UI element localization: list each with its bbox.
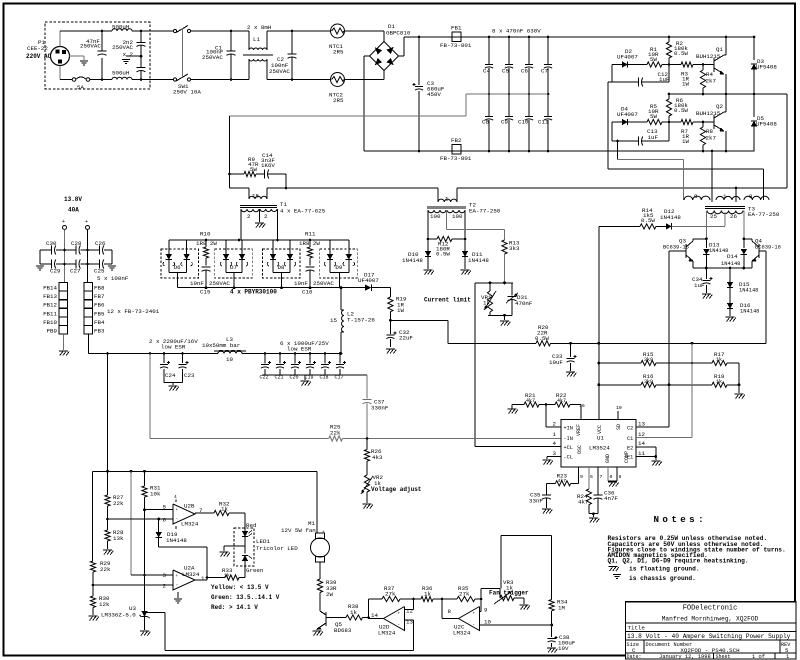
svg-text:1W: 1W	[397, 307, 404, 314]
svg-text:1N4148: 1N4148	[166, 537, 187, 544]
svg-text:C29: C29	[50, 268, 61, 275]
svg-text:5W: 5W	[650, 56, 657, 63]
svg-text:FB11: FB11	[43, 310, 57, 317]
svg-text:2k7: 2k7	[706, 78, 717, 85]
svg-text:3k9: 3k9	[644, 357, 653, 363]
svg-text:Manfred Mornhinweg, XQ2FOD: Manfred Mornhinweg, XQ2FOD	[662, 616, 759, 623]
svg-text:0.5W: 0.5W	[436, 251, 450, 258]
svg-text:5A: 5A	[77, 84, 84, 91]
svg-text:GBPC810: GBPC810	[386, 30, 411, 37]
svg-text:1uF: 1uF	[648, 134, 659, 141]
svg-text:+: +	[322, 530, 325, 535]
svg-text:+IN: +IN	[564, 426, 573, 432]
svg-text:25: 25	[710, 213, 717, 220]
svg-text:Fan trigger: Fan trigger	[489, 590, 529, 597]
svg-text:C17: C17	[335, 375, 344, 381]
svg-text:C28: C28	[71, 240, 82, 247]
svg-text:10nF: 10nF	[190, 280, 204, 287]
svg-text:is chassis ground.: is chassis ground.	[629, 575, 696, 582]
svg-text:9: 9	[484, 607, 488, 614]
svg-text:6: 6	[590, 474, 593, 480]
svg-text:15: 15	[252, 193, 259, 200]
svg-text:C5: C5	[502, 68, 509, 75]
svg-text:EA-77-250: EA-77-250	[469, 208, 501, 215]
svg-text:10V: 10V	[558, 645, 569, 652]
svg-text:FB-73-801: FB-73-801	[440, 155, 472, 162]
svg-text:4: 4	[174, 494, 177, 500]
svg-text:Q2: Q2	[716, 103, 723, 110]
svg-text:22uF: 22uF	[399, 335, 413, 342]
svg-text:1 of: 1 of	[752, 654, 765, 660]
svg-text:2W: 2W	[326, 591, 333, 598]
svg-text:27k: 27k	[385, 591, 396, 598]
svg-text:1N4148: 1N4148	[739, 288, 758, 294]
svg-text:R11: R11	[305, 231, 316, 238]
svg-text:D7: D7	[230, 264, 237, 271]
svg-text:8 x 470nF 630V: 8 x 470nF 630V	[492, 28, 541, 35]
svg-text:1k: 1k	[424, 591, 431, 598]
svg-text:C2: C2	[627, 426, 633, 432]
svg-text:10: 10	[616, 405, 622, 411]
svg-text:4k3: 4k3	[372, 454, 383, 461]
svg-text:8: 8	[448, 608, 452, 615]
svg-text:4k7: 4k7	[558, 478, 567, 484]
svg-text:12: 12	[406, 608, 413, 615]
svg-text:C6: C6	[521, 68, 528, 75]
svg-text:C7: C7	[541, 68, 548, 75]
svg-text:C15: C15	[200, 289, 211, 296]
svg-text:1: 1	[445, 196, 449, 203]
svg-text:13k: 13k	[113, 535, 124, 542]
svg-text:Yellow: < 13.5 V: Yellow: < 13.5 V	[211, 584, 269, 591]
svg-text:0.5W: 0.5W	[674, 107, 688, 114]
svg-text:C8: C8	[482, 119, 489, 126]
svg-text:12: 12	[638, 431, 645, 438]
svg-text:Q4: Q4	[755, 238, 762, 245]
svg-text:10: 10	[484, 619, 491, 626]
svg-text:C25: C25	[94, 268, 105, 275]
svg-text:-: -	[472, 623, 475, 628]
svg-text:1N4148: 1N4148	[709, 248, 728, 254]
svg-text:C18: C18	[320, 375, 329, 381]
svg-text:GND: GND	[605, 454, 611, 463]
svg-text:3k9: 3k9	[644, 379, 653, 385]
svg-text:UF4007: UF4007	[617, 111, 638, 118]
svg-text:12 x FB-73-2401: 12 x FB-73-2401	[107, 308, 160, 315]
svg-text:+CL: +CL	[564, 445, 573, 451]
svg-text:BC639-16: BC639-16	[755, 245, 781, 251]
svg-text:2: 2	[553, 421, 557, 428]
svg-text:1K6V: 1K6V	[261, 162, 275, 169]
svg-text:8: 8	[619, 474, 622, 480]
svg-text:10uF: 10uF	[549, 359, 563, 366]
svg-text:10k: 10k	[150, 491, 161, 498]
svg-text:C23: C23	[184, 372, 195, 379]
svg-text:13.8V: 13.8V	[64, 196, 82, 203]
svg-text:100: 100	[430, 213, 441, 220]
svg-text:250VAC: 250VAC	[112, 44, 133, 51]
svg-text:LM336Z-5.0: LM336Z-5.0	[101, 612, 136, 619]
svg-text:Tricolor LED: Tricolor LED	[256, 545, 298, 552]
svg-text:C27: C27	[70, 268, 81, 275]
svg-text:250VAC: 250VAC	[80, 43, 101, 50]
svg-text:2R5: 2R5	[333, 97, 344, 104]
svg-text:C4: C4	[483, 68, 490, 75]
svg-text:-CL: -CL	[564, 455, 573, 461]
svg-text:0.5W: 0.5W	[535, 335, 549, 342]
svg-text:C1: C1	[627, 436, 633, 442]
svg-text:250VAC: 250VAC	[313, 280, 334, 287]
svg-text:R10: R10	[200, 231, 211, 238]
svg-text:11: 11	[638, 450, 645, 457]
svg-text:C21: C21	[275, 375, 284, 381]
svg-text:5: 5	[163, 504, 167, 511]
svg-text:1k: 1k	[716, 357, 722, 363]
svg-text:C22: C22	[260, 375, 269, 381]
svg-text:500uH: 500uH	[112, 70, 130, 77]
svg-text:Notes:: Notes:	[654, 514, 707, 525]
svg-text:5W: 5W	[650, 113, 657, 120]
svg-text:3k3: 3k3	[509, 245, 520, 252]
svg-text:22k: 22k	[330, 430, 341, 437]
svg-text:FB14: FB14	[43, 285, 57, 292]
svg-text:22k: 22k	[100, 566, 111, 573]
svg-text:FB1: FB1	[451, 25, 462, 32]
svg-text:2 x 8mH: 2 x 8mH	[247, 24, 272, 31]
svg-text:Red: Red	[246, 522, 256, 529]
svg-text:4k7: 4k7	[526, 398, 535, 404]
svg-text:FB3: FB3	[94, 328, 105, 335]
svg-text:9: 9	[580, 474, 583, 480]
svg-text:UF4007: UF4007	[358, 277, 379, 284]
svg-text:4n7F: 4n7F	[604, 495, 618, 502]
svg-text:FB2: FB2	[451, 137, 462, 144]
svg-text:-: -	[176, 583, 179, 588]
svg-text:-IN: -IN	[564, 436, 573, 442]
svg-text:1uF: 1uF	[659, 76, 670, 83]
svg-text:OSC: OSC	[577, 445, 583, 454]
svg-text:E2: E2	[627, 446, 633, 452]
svg-text:16: 16	[579, 403, 585, 409]
svg-text:U2B: U2B	[184, 503, 195, 510]
svg-text:33nF: 33nF	[529, 498, 543, 505]
svg-text:T-157-26: T-157-26	[347, 317, 375, 324]
svg-text:3: 3	[553, 450, 557, 457]
svg-text:LM324: LM324	[453, 630, 471, 637]
svg-text:Q1, Q2, D1, D6-D9 require heat: Q1, Q2, D1, D6-D9 require heatsinking.	[608, 558, 749, 565]
svg-text:M1: M1	[308, 520, 315, 527]
svg-text:5W: 5W	[250, 166, 257, 173]
svg-text:0: 0	[610, 474, 613, 480]
svg-text:0.5W: 0.5W	[641, 217, 655, 224]
svg-text:470nF: 470nF	[515, 300, 533, 307]
svg-text:0.5W: 0.5W	[674, 50, 688, 57]
svg-text:10nF: 10nF	[294, 280, 308, 287]
svg-text:low ESR: low ESR	[161, 344, 186, 351]
svg-text:2R5: 2R5	[333, 49, 344, 56]
svg-text:low ESR: low ESR	[287, 346, 312, 353]
svg-text:FB12: FB12	[43, 302, 57, 309]
svg-text:x 2: x 2	[123, 51, 134, 58]
svg-text:D6: D6	[174, 264, 181, 271]
svg-text:220V AC: 220V AC	[26, 53, 52, 60]
svg-text:C30: C30	[46, 240, 57, 247]
svg-text:1N4148: 1N4148	[740, 309, 759, 315]
svg-text:450V: 450V	[427, 91, 441, 98]
svg-text:FB6: FB6	[94, 302, 105, 309]
svg-text:BUH1215: BUH1215	[696, 110, 721, 117]
svg-text:1: 1	[553, 431, 557, 438]
svg-text:1R8 2W: 1R8 2W	[196, 240, 217, 247]
svg-text:Voltage adjust: Voltage adjust	[371, 486, 422, 493]
svg-text:L1: L1	[253, 36, 260, 43]
svg-text:3: 3	[163, 572, 167, 579]
svg-text:Sheet: Sheet	[716, 654, 731, 660]
svg-text:FB7: FB7	[94, 293, 105, 300]
svg-text:Date:: Date:	[627, 654, 642, 660]
svg-text:4k7: 4k7	[578, 499, 589, 506]
svg-text:FODelectronic: FODelectronic	[683, 605, 738, 613]
svg-text:FB4: FB4	[94, 319, 105, 326]
svg-text:2: 2	[247, 213, 251, 220]
svg-text:UF5408: UF5408	[756, 121, 777, 128]
svg-text:Green: 13.5..14.1 V: Green: 13.5..14.1 V	[211, 594, 280, 601]
svg-text:is floating ground.: is floating ground.	[629, 566, 700, 573]
svg-text:BD683: BD683	[334, 627, 352, 634]
svg-text:1: 1	[786, 654, 789, 660]
svg-text:1k: 1k	[221, 506, 228, 513]
svg-text:FB9: FB9	[47, 328, 58, 335]
svg-text:Green: Green	[246, 567, 263, 574]
svg-text:1uF: 1uF	[694, 282, 705, 289]
svg-text:LM324: LM324	[378, 630, 396, 637]
svg-text:13.8 Volt - 40 Ampere Switchin: 13.8 Volt - 40 Ampere Switching Power Su…	[627, 633, 791, 640]
svg-text:VCC: VCC	[597, 425, 603, 434]
svg-text:100: 100	[452, 213, 463, 220]
svg-text:4 x EA-77-625: 4 x EA-77-625	[280, 208, 326, 215]
svg-text:1: 1	[723, 193, 727, 200]
svg-text:Red: > 14.1 V: Red: > 14.1 V	[211, 604, 258, 611]
svg-text:C19: C19	[305, 375, 314, 381]
svg-text:1N4148: 1N4148	[468, 257, 489, 264]
svg-text:2: 2	[264, 213, 268, 220]
svg-text:1N4148: 1N4148	[402, 257, 423, 264]
svg-text:UF5408: UF5408	[756, 64, 777, 71]
svg-text:+: +	[85, 219, 88, 225]
svg-text:LM324: LM324	[182, 571, 200, 578]
svg-text:LM324: LM324	[181, 521, 199, 528]
svg-text:BC639-16: BC639-16	[663, 245, 689, 251]
svg-text:2k7: 2k7	[706, 135, 717, 142]
svg-text:2: 2	[163, 583, 167, 590]
svg-text:250V 10A: 250V 10A	[173, 89, 201, 96]
svg-text:LM3524: LM3524	[589, 445, 610, 452]
svg-text:7: 7	[600, 474, 603, 480]
svg-text:UF4007: UF4007	[617, 54, 638, 61]
svg-text:U1: U1	[597, 435, 604, 442]
svg-text:FB5: FB5	[94, 310, 105, 317]
svg-text:D9: D9	[335, 264, 342, 271]
svg-text:40A: 40A	[68, 207, 79, 214]
svg-text:Q1: Q1	[716, 46, 723, 53]
svg-text:C26: C26	[95, 240, 106, 247]
svg-text:6: 6	[163, 517, 167, 524]
svg-text:250VAC: 250VAC	[269, 68, 290, 75]
svg-text:E1: E1	[627, 455, 633, 461]
svg-text:C11: C11	[538, 119, 549, 126]
svg-text:D8: D8	[278, 264, 285, 271]
svg-text:1N4148: 1N4148	[660, 214, 681, 221]
svg-text:1W: 1W	[682, 138, 689, 145]
svg-text:C9: C9	[501, 119, 508, 126]
svg-text:LED1: LED1	[256, 538, 270, 545]
svg-text:12k: 12k	[99, 601, 110, 608]
svg-text:Q3: Q3	[679, 238, 686, 245]
svg-text:1M: 1M	[558, 605, 565, 612]
svg-text:-: -	[397, 623, 400, 628]
svg-text:1N4148: 1N4148	[721, 261, 740, 267]
svg-text:8: 8	[694, 193, 698, 200]
svg-text:250VAC: 250VAC	[202, 54, 223, 61]
svg-text:15: 15	[330, 317, 337, 324]
svg-text:13: 13	[638, 421, 645, 428]
svg-text:1W: 1W	[682, 81, 689, 88]
svg-text:27k: 27k	[459, 591, 470, 598]
svg-text:FB8: FB8	[94, 285, 105, 292]
svg-text:26: 26	[730, 213, 737, 220]
svg-text:Title: Title	[628, 625, 646, 632]
svg-text:FB10: FB10	[43, 319, 57, 326]
svg-text:C10: C10	[518, 119, 529, 126]
svg-text:SD: SD	[616, 424, 622, 430]
svg-text:1: 1	[201, 575, 205, 582]
svg-text:Current limit: Current limit	[424, 297, 471, 304]
svg-text:4 x PBYR30100: 4 x PBYR30100	[230, 289, 277, 296]
svg-text:FB-73-801: FB-73-801	[440, 42, 472, 49]
svg-text:1k: 1k	[224, 573, 230, 579]
svg-text:-: -	[176, 517, 179, 522]
svg-text:VREF: VREF	[576, 424, 582, 436]
svg-text:12V 5W fan: 12V 5W fan	[281, 527, 316, 534]
svg-text:1k: 1k	[716, 379, 722, 385]
svg-text:1k: 1k	[350, 609, 357, 616]
svg-text:+: +	[62, 219, 65, 225]
svg-text:8: 8	[749, 193, 753, 200]
svg-text:22k: 22k	[113, 500, 124, 507]
svg-text:14: 14	[371, 612, 378, 619]
svg-text:C20: C20	[290, 375, 299, 381]
svg-text:250VAC: 250VAC	[209, 280, 230, 287]
svg-text:January 12, 1998: January 12, 1998	[659, 654, 711, 660]
svg-text:CEE-22: CEE-22	[27, 45, 48, 52]
svg-text:330nF: 330nF	[371, 405, 389, 412]
svg-text:4: 4	[553, 440, 557, 447]
svg-text:BUH1215: BUH1215	[696, 53, 721, 60]
svg-text:FB13: FB13	[43, 293, 57, 300]
svg-text:14: 14	[638, 440, 645, 447]
svg-text:4k7: 4k7	[557, 398, 566, 404]
svg-text:C16: C16	[302, 289, 313, 296]
svg-text:5 x 100nF: 5 x 100nF	[97, 275, 129, 282]
svg-text:EA-77-250: EA-77-250	[748, 211, 780, 218]
svg-text:500uH: 500uH	[112, 24, 130, 31]
svg-text:1k: 1k	[483, 300, 490, 307]
svg-text:C24: C24	[165, 372, 176, 379]
svg-text:10x50mm bar: 10x50mm bar	[202, 342, 240, 349]
svg-text:10: 10	[226, 356, 233, 363]
svg-text:D14: D14	[727, 253, 738, 260]
